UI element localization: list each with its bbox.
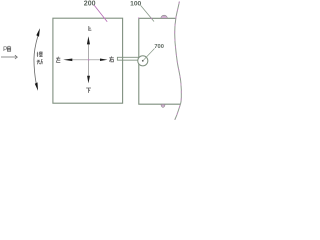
svg-text:700: 700 xyxy=(154,44,164,50)
svg-text:200: 200 xyxy=(84,1,96,8)
svg-text:100: 100 xyxy=(130,1,141,8)
